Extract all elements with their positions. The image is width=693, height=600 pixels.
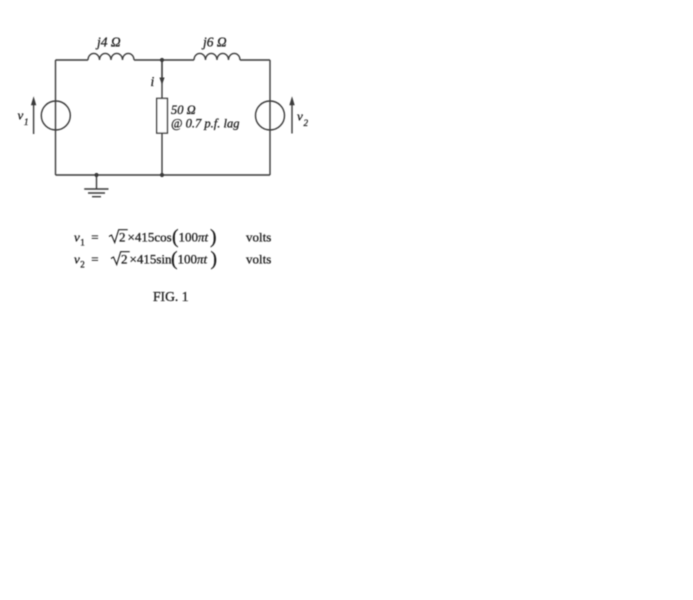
svg-text:=: =	[91, 252, 98, 267]
svg-text:FIG. 1: FIG. 1	[153, 289, 189, 304]
svg-text:100: 100	[178, 252, 198, 267]
svg-text:1: 1	[80, 238, 85, 248]
svg-text:2: 2	[304, 118, 309, 128]
svg-text:2: 2	[119, 230, 126, 245]
svg-text:×415sin: ×415sin	[130, 252, 173, 267]
svg-text:i: i	[151, 74, 155, 89]
svg-text:j4 Ω: j4 Ω	[95, 35, 121, 50]
svg-text:): )	[210, 227, 217, 248]
svg-text:v: v	[297, 109, 303, 124]
svg-text:2: 2	[121, 252, 128, 267]
svg-text:@ 0.7 p.f. lag: @ 0.7 p.f. lag	[171, 117, 239, 131]
svg-text:v: v	[18, 108, 24, 123]
svg-text:v: v	[74, 252, 80, 267]
svg-text:volts: volts	[246, 252, 271, 267]
svg-text:×415cos: ×415cos	[128, 230, 172, 245]
svg-text:): )	[211, 249, 218, 270]
svg-text:50 Ω: 50 Ω	[171, 103, 196, 117]
svg-text:πt: πt	[197, 252, 208, 267]
svg-text:v: v	[74, 230, 80, 245]
svg-text:j6 Ω: j6 Ω	[201, 35, 227, 50]
svg-text:=: =	[91, 230, 98, 245]
svg-text:2: 2	[80, 260, 85, 270]
svg-text:1: 1	[24, 117, 29, 127]
svg-text:volts: volts	[246, 230, 271, 245]
svg-text:100: 100	[179, 230, 199, 245]
svg-text:πt: πt	[198, 230, 209, 245]
